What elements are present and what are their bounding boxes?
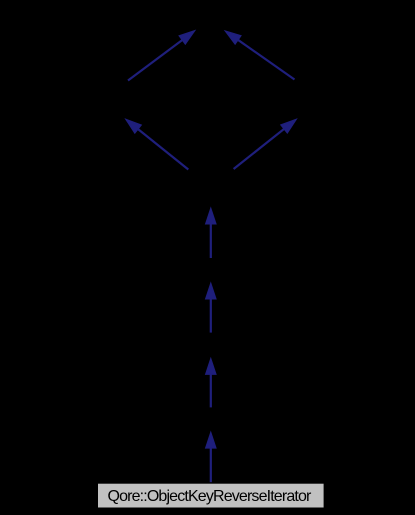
- svg-text:Qore::ObjectKeyReverseIterator: Qore::ObjectKeyReverseIterator: [107, 488, 312, 505]
- edge arrow: right node to top node: [237, 39, 295, 80]
- edge arrow: middle node to right node: [234, 128, 286, 169]
- edge arrow: chain node 3 to chain node 2: [210, 372, 212, 407]
- edge arrow: chain node 2 to chain node 1: [210, 297, 212, 333]
- node Qore::ObjectKeyReverseIterator (current node, gray box): [97, 482, 325, 508]
- node Qore::HashKeyReverseIterator (invisible black box): [132, 407, 290, 432]
- edge arrow: middle node to left node: [137, 128, 189, 170]
- node Qore::AbstractQuantifiedBidirectionalIterator (diamond bottom, invisible black box): [144, 170, 278, 208]
- edge arrow: current node to chain node 3: [210, 446, 212, 482]
- node Qore::AbstractIterator (top, invisible black box): [140, 4, 280, 30]
- node Qore::AbstractQuantifiedIterator (right, invisible black box): [228, 80, 362, 120]
- edge arrow: left node to top node: [128, 39, 184, 81]
- node Qore::HashKeyIterator (invisible black box): [146, 333, 276, 359]
- node Qore::HashIterator (invisible black box): [150, 258, 272, 283]
- edge arrow: chain node 1 to middle node: [210, 222, 212, 258]
- node Qore::AbstractBidirectionalIterator (left, invisible black box): [62, 81, 194, 120]
